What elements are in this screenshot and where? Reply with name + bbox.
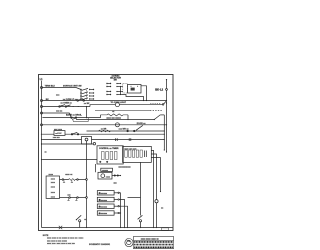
relay stack K2	[99, 192, 100, 193]
wire blade to vertical	[160, 114, 164, 116]
E1 indicator marks	[63, 180, 65, 182]
junction dot right	[164, 134, 165, 135]
wire door line y124.8	[42, 124, 166, 126]
thermostat stub line y113	[42, 112, 69, 114]
wire line y144	[42, 143, 93, 145]
svg-text:TERM BLK: TERM BLK	[45, 86, 56, 88]
contact dots on lamp line	[73, 106, 74, 107]
svg-text:xxx xxx: xxx xxx	[53, 137, 61, 139]
wire bottom line	[42, 227, 173, 229]
door switch S4 blade	[76, 215, 81, 219]
svg-text:xxx xx: xxx xx	[56, 110, 63, 112]
wire L2 bus	[166, 79, 168, 88]
bypass loop under switch	[73, 118, 88, 122]
svg-text:xx BK: xx BK	[84, 103, 90, 105]
svg-text:SCHEMATIC 316426301: SCHEMATIC 316426301	[89, 243, 110, 246]
switch blade from stub down	[70, 113, 72, 117]
svg-text:xxxx: xxxx	[51, 178, 56, 180]
relay stack K4	[99, 206, 100, 207]
notes text block	[43, 235, 84, 245]
svg-text:L1: L1	[40, 78, 44, 81]
junction dot on L2	[166, 102, 167, 103]
switch circle to L2	[162, 104, 164, 106]
svg-text:xxxx xx: xxxx xx	[65, 174, 73, 176]
svg-text:xxxx: xxxx	[51, 196, 56, 198]
mechanical link dashes 2	[150, 109, 163, 111]
wire grid to relay row2	[121, 86, 123, 88]
relay K1 dashed housing	[123, 84, 128, 94]
switch blade to L2	[164, 101, 166, 104]
door switch pivot	[76, 219, 77, 220]
fan motor circle	[101, 174, 105, 178]
TB1 text rows	[51, 178, 56, 198]
svg-text:xxSTAT: xxSTAT	[55, 132, 62, 135]
thermostat box TH1	[54, 131, 65, 136]
svg-text:xxxxxxxx: xxxxxxxx	[99, 213, 108, 215]
element row E2	[60, 197, 69, 199]
wire line B L1 to L2	[42, 100, 166, 102]
svg-text:xx OVEN LT sw: xx OVEN LT sw	[63, 99, 78, 101]
lamp DS3 housing	[82, 137, 92, 145]
title block dense row 1	[134, 241, 173, 243]
wire left descender 86.5	[86, 141, 88, 228]
switch blade on line B	[78, 99, 83, 100]
end dot vertical 166.5	[166, 151, 167, 152]
surface unit switch bank SW1	[76, 88, 94, 100]
title block dense row 2	[134, 244, 173, 246]
svg-text:xxx: xxx	[114, 182, 118, 184]
label oven selector switch	[110, 76, 121, 82]
svg-text:xx: xx	[112, 111, 115, 113]
wire switch to bottom	[140, 222, 142, 228]
bake element R1 zigzag	[101, 114, 129, 116]
E2 indicator marks	[68, 198, 70, 200]
junction dot	[120, 175, 121, 176]
junction dot at 164.5	[164, 124, 165, 125]
wire relay K1 to line B	[141, 86, 147, 101]
oven lamp DS1	[115, 103, 119, 107]
svg-text:xxxx: xxxx	[51, 186, 56, 188]
U2 right marks	[144, 151, 146, 158]
svg-text:xx: xx	[45, 152, 48, 154]
terminal circle L2	[166, 89, 168, 91]
wire right vertical 164.5	[163, 115, 165, 150]
lamp DS3	[85, 138, 88, 141]
relay blade up to door line	[136, 125, 143, 130]
U2 inner contact rects	[125, 150, 127, 157]
svg-text:xx OVEN xx: xx OVEN xx	[61, 102, 73, 104]
switch contacts on lamp line	[59, 106, 61, 108]
junction dot	[86, 117, 87, 118]
svg-text:xxxxxx: xxxxxx	[102, 170, 109, 172]
terminal block box TB1	[46, 176, 59, 198]
svg-text:xxxxxxxxxxx: xxxxxxxxxxx	[118, 167, 131, 169]
vertical bus from U1 to fan box	[95, 164, 97, 172]
relay stack K3	[99, 199, 100, 200]
element right corner down	[127, 115, 129, 120]
wire vertical 140.5 upper	[140, 162, 142, 215]
wire grid to relay row3	[121, 91, 123, 93]
switch circles on line B	[77, 100, 79, 102]
wire lamp line to L2 switch	[119, 104, 162, 106]
small motor circle at line end	[93, 143, 95, 145]
title block dense row 3	[134, 246, 173, 248]
terminal circle on L1 bus	[41, 87, 43, 89]
junction dot on bus	[41, 134, 42, 135]
mechanical link dashes	[150, 103, 160, 105]
element row E1	[60, 179, 63, 181]
svg-text:NOTE: NOTE	[43, 235, 49, 237]
wire to bottom line	[79, 222, 81, 228]
selector switch contact grid SW2	[106, 83, 121, 95]
logo scribble	[127, 240, 132, 244]
junction dot right	[164, 139, 165, 140]
wire between verticals y197.5	[128, 197, 141, 199]
wire U2 to vertical 160.5	[151, 158, 160, 192]
title block row separators	[134, 242, 174, 244]
small box above bottom right	[162, 228, 169, 230]
U1 contact circles	[100, 161, 101, 162]
door lock switch circle	[139, 220, 141, 222]
zigzag feed vertical	[100, 115, 102, 118]
wire thermostat line y134.2	[42, 133, 164, 135]
lamp DS2	[115, 123, 119, 127]
contact circles	[114, 175, 115, 176]
svg-text:xx: xx	[161, 207, 164, 209]
svg-text:SW: SW	[114, 79, 117, 81]
second lamp rail	[95, 109, 150, 111]
wire line A from L1 to surface switch	[42, 87, 76, 89]
junction dot	[146, 100, 147, 101]
control box U1 clock timer	[97, 146, 123, 164]
thermostat pivot dot	[154, 119, 155, 120]
junction dot line B at L2	[166, 100, 167, 101]
svg-text:xxxxxxxx: xxxxxxxx	[99, 193, 108, 195]
svg-text:xxx: xxx	[56, 95, 60, 97]
terminal circle on L1 bus	[41, 100, 43, 102]
junction dot on bus	[41, 143, 42, 144]
thermostat blade	[154, 115, 160, 120]
wire U2 to vertical 156.5	[151, 154, 156, 200]
broil element R2 zigzag	[99, 130, 111, 132]
door switch circle	[79, 220, 81, 222]
svg-text:xxx: xxx	[67, 194, 71, 196]
svg-text:DOOR xx: DOOR xx	[137, 123, 147, 125]
contact circles	[127, 130, 129, 132]
U1 inner contact rects	[102, 152, 105, 160]
wire fan box right	[112, 175, 121, 177]
junction dot on bus	[41, 159, 42, 160]
terminal circle on descender	[86, 197, 88, 199]
junction dot L2 top	[166, 79, 167, 80]
svg-text:BAKE xx BROIL: BAKE xx BROIL	[66, 114, 83, 117]
wire L2 bus lower	[166, 90, 168, 152]
svg-text:CONTROL xx TIMER: CONTROL xx TIMER	[99, 148, 119, 150]
switch contacts line y117.6	[71, 117, 73, 119]
svg-text:xxxxxxxx: xxxxxxxx	[99, 200, 108, 202]
vertical link 86.5	[86, 107, 88, 118]
control box U2	[123, 146, 152, 162]
junction dot right	[164, 130, 165, 131]
svg-text:xxxx xxx x xxx xxxx xx xxx xxx: xxxx xxx x xxx xxxx xx xxx xxx	[47, 243, 76, 245]
door lock switch blade	[138, 215, 143, 219]
plug contact bars	[115, 138, 117, 141]
svg-text:xxxxxxxx: xxxxxxxx	[99, 207, 108, 209]
svg-text:xxxx: xxxx	[51, 182, 56, 184]
relay K1 coil dark label	[131, 88, 135, 91]
junction dot lamp line at descender	[86, 106, 87, 107]
wire broil line y131	[87, 130, 165, 132]
motor M1	[155, 200, 158, 203]
junction dot at L2 vertical	[166, 124, 167, 125]
svg-text:xxxx xxxx xx xx xxxxx xx xxxx: xxxx xxxx xx xx xxxxx xx xxxx xx x xxxx	[47, 238, 84, 240]
svg-text:xxxx: xxxx	[51, 192, 56, 194]
wire line y139.5	[42, 139, 164, 141]
manufacturer logo	[125, 239, 133, 247]
fan motor box M2	[98, 172, 112, 179]
svg-text:BK-L2: BK-L2	[155, 88, 163, 92]
switch circles	[71, 133, 73, 135]
relay stack K5	[99, 213, 100, 214]
junction dot	[143, 100, 144, 101]
end dot vertical 164.5	[164, 149, 165, 150]
junction circle on bus	[41, 124, 43, 126]
relay K1 body	[128, 85, 142, 94]
switch blade down to element line	[72, 118, 76, 120]
junction dot on bus	[41, 139, 42, 140]
wire lamp line right segment	[90, 105, 115, 107]
terminal circle on L1 bus for stub	[41, 112, 43, 114]
title block separator	[134, 239, 174, 241]
splice X symbol	[59, 226, 62, 229]
wire line y117.6	[42, 117, 100, 119]
end dot	[160, 191, 161, 192]
wire vertical 156.5 lower	[156, 203, 158, 228]
svg-text:xxx xxxx xx xxx xxxxx: xxx xxxx xx xxx xxxxx	[47, 240, 68, 242]
upper box above stack	[101, 168, 113, 171]
wire element return line y119.6	[76, 119, 154, 121]
switch blades on lamp line	[60, 105, 65, 107]
wire grid bottom to under-relay path	[121, 95, 143, 101]
title block table	[134, 236, 174, 248]
svg-text:xxxx: xxxx	[106, 176, 111, 178]
terminal circle on L1 bus	[41, 106, 43, 108]
terminal circle on descender	[86, 179, 88, 181]
switch blade	[73, 132, 78, 133]
wire U2 to vertical 153.5	[151, 150, 153, 227]
schematic border frame	[39, 75, 174, 231]
wire L1 bus	[41, 81, 43, 228]
wire lamp line left segment	[42, 106, 90, 108]
junction dots on bottom line	[86, 227, 87, 228]
wire line y159.5	[42, 159, 97, 161]
relay K1 contact dots	[131, 86, 132, 87]
svg-text:SURFACE UNIT SW: SURFACE UNIT SW	[63, 85, 82, 88]
junction dot	[127, 119, 128, 120]
